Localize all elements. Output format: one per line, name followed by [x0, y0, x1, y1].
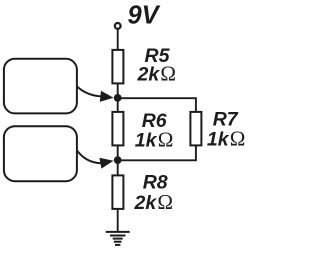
callout box 2 — [4, 126, 77, 181]
svg-text:9V: 9V — [128, 1, 161, 29]
callout arrow 2 curve — [77, 151, 101, 164]
node B junction dot — [114, 156, 122, 164]
wire node A to R6 — [117, 98, 119, 112]
node A junction dot — [114, 94, 122, 102]
9V supply terminal — [115, 23, 121, 29]
svg-text:2kΩ: 2kΩ — [137, 62, 177, 86]
svg-text:1kΩ: 1kΩ — [207, 127, 246, 151]
resistor R5 — [112, 50, 123, 84]
svg-text:1kΩ: 1kΩ — [135, 128, 174, 152]
resistor R7 — [190, 112, 201, 145]
callout arrow 2 head — [99, 158, 113, 169]
wire R7 to node B — [118, 145, 196, 160]
wire R6 to node B — [117, 145, 119, 160]
wire R8 to ground — [117, 209, 119, 232]
wire node B to R8 — [117, 160, 119, 176]
wire node A to R7 branch — [118, 98, 196, 112]
wire terminal to R5 — [117, 29, 119, 50]
callout box 1 — [4, 59, 77, 114]
svg-text:2kΩ: 2kΩ — [134, 190, 174, 214]
resistor R8 — [112, 175, 123, 209]
callout arrow 1 curve — [77, 87, 101, 97]
resistor R6 — [112, 112, 123, 145]
callout arrow 1 head — [100, 91, 114, 102]
wire R5 to node A — [117, 83, 119, 98]
ground symbol — [106, 232, 130, 245]
